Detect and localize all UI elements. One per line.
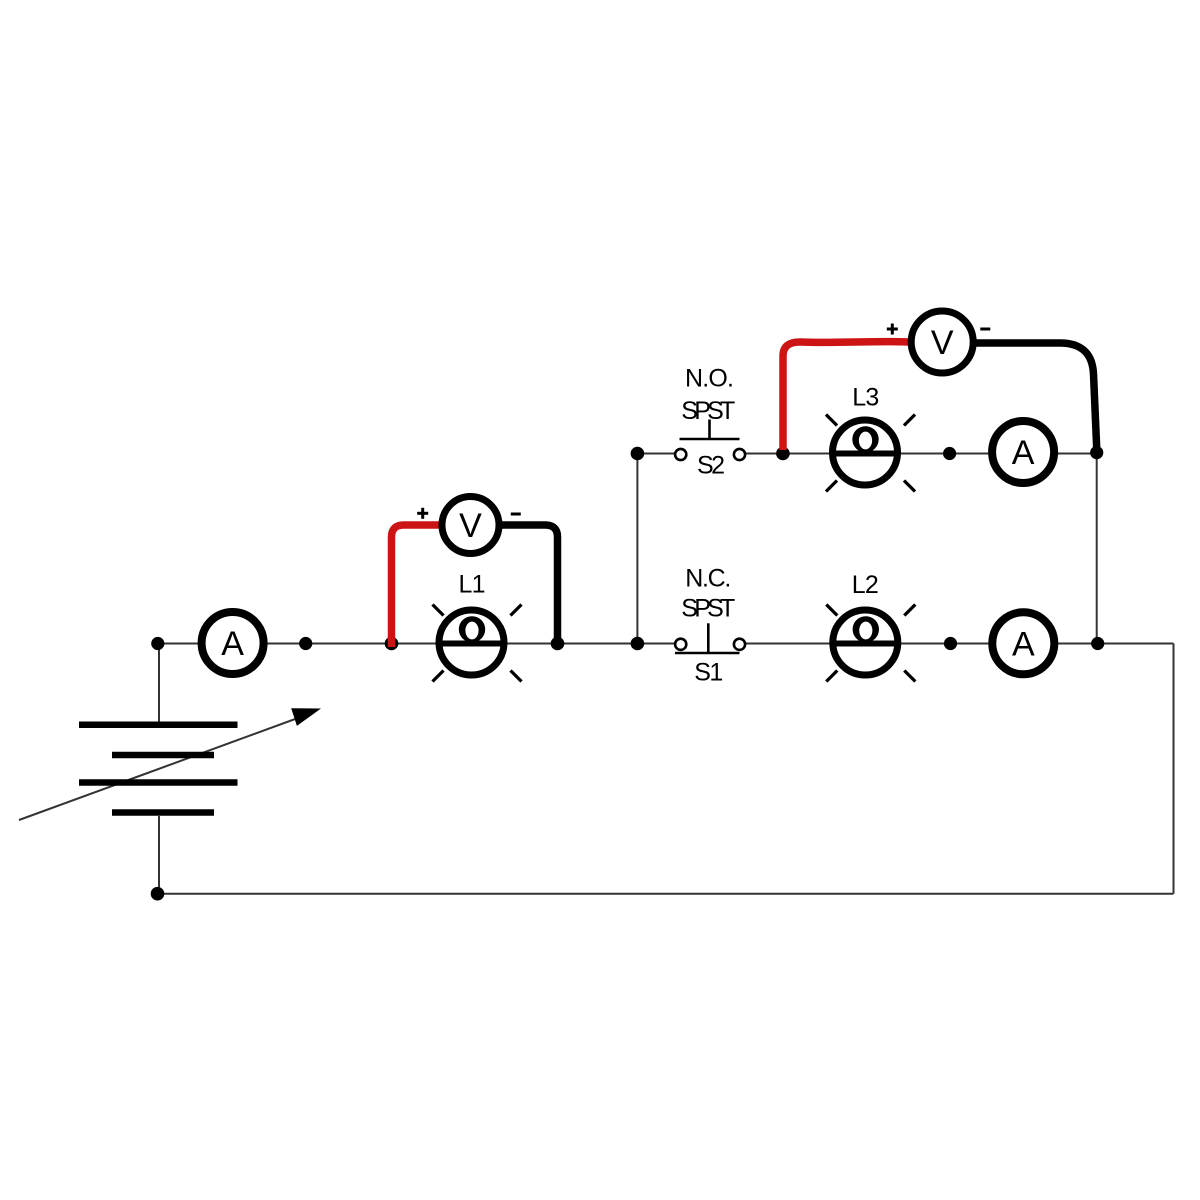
svg-text:A: A bbox=[1012, 625, 1035, 663]
svg-text:L3: L3 bbox=[852, 384, 879, 412]
svg-text:S1: S1 bbox=[694, 658, 723, 686]
svg-text:N.O.: N.O. bbox=[685, 365, 734, 393]
svg-text:A: A bbox=[1012, 434, 1035, 472]
svg-text:L1: L1 bbox=[459, 571, 486, 599]
svg-text:V: V bbox=[459, 507, 482, 545]
svg-text:A: A bbox=[221, 625, 244, 663]
svg-text:V: V bbox=[931, 324, 954, 362]
svg-text:SPST: SPST bbox=[681, 595, 735, 623]
svg-text:SPST: SPST bbox=[681, 397, 735, 425]
svg-text:S2: S2 bbox=[697, 452, 725, 480]
svg-text:N.C.: N.C. bbox=[685, 565, 731, 593]
svg-text:L2: L2 bbox=[852, 571, 879, 599]
